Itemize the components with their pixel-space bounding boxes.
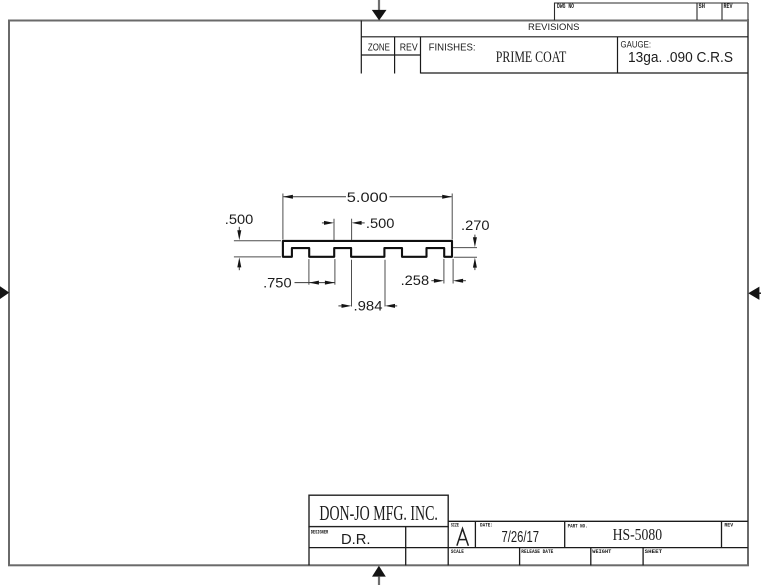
- dimension .500 (left height) extension lines: [234, 241, 281, 257]
- svg-text:DESIGNER: DESIGNER: [311, 529, 329, 535]
- svg-text:7/26/17: 7/26/17: [502, 529, 540, 546]
- svg-text:HS-5080: HS-5080: [613, 525, 663, 544]
- svg-text:REV: REV: [724, 522, 734, 528]
- svg-text:.500: .500: [225, 211, 254, 227]
- dimension .750 extension lines: [309, 259, 335, 285]
- svg-text:SHEET: SHEET: [645, 549, 663, 555]
- svg-text:DATE:: DATE:: [480, 522, 493, 528]
- svg-text:REV: REV: [724, 3, 733, 10]
- svg-text:SCALE: SCALE: [451, 549, 464, 555]
- svg-text:DON-JO MFG. INC.: DON-JO MFG. INC.: [319, 501, 438, 525]
- dimension .258 arrows: [431, 280, 466, 282]
- svg-text:.984: .984: [354, 298, 383, 314]
- revisions header table lines: [361, 21, 748, 74]
- svg-text:.750: .750: [263, 274, 292, 290]
- right zone marker arrow: [748, 287, 761, 300]
- dimension .500 (slot width) extension lines: [334, 219, 352, 240]
- svg-text:13ga. .090 C.R.S: 13ga. .090 C.R.S: [628, 50, 733, 66]
- svg-text:SH: SH: [699, 3, 706, 10]
- dimension .984 extension lines: [352, 260, 386, 307]
- dimension .500 (left) arrows: [238, 227, 240, 270]
- title block lines: [309, 521, 748, 565]
- dimension .500 (slot) arrows: [322, 222, 365, 224]
- top zone marker arrow: [372, 0, 387, 20]
- svg-text:REV: REV: [400, 41, 418, 53]
- dimension .258 extension lines: [444, 259, 453, 284]
- svg-text:.500: .500: [366, 215, 395, 231]
- svg-text:SIZE: SIZE: [451, 522, 459, 528]
- svg-text:PART NO.: PART NO.: [568, 524, 588, 530]
- size letter A: [457, 529, 469, 546]
- dimension .270 extension lines: [453, 248, 477, 258]
- svg-text:PRIME COAT: PRIME COAT: [496, 49, 567, 66]
- bottom zone marker arrow: [372, 566, 386, 585]
- dimension .270 arrows: [474, 235, 476, 271]
- svg-text:5.000: 5.000: [347, 189, 388, 205]
- svg-text:FINISHES:: FINISHES:: [429, 41, 476, 53]
- dimension 5.000 extension lines: [283, 194, 452, 240]
- svg-text:ZONE: ZONE: [368, 41, 390, 53]
- dimension .984 arrows: [338, 305, 397, 307]
- dimension .750 dimension + leader line: [295, 282, 335, 284]
- title block company box: [309, 495, 448, 526]
- dimension 5.000 arrowheads: [283, 195, 293, 199]
- dimension 5.000 dimension line: [283, 196, 451, 198]
- svg-text:D.R.: D.R.: [341, 532, 371, 548]
- svg-text:DWG NO: DWG NO: [557, 3, 574, 10]
- svg-text:.258: .258: [401, 272, 430, 288]
- svg-text:RELEASE DATE: RELEASE DATE: [521, 549, 553, 555]
- part cross-section profile outline: [283, 241, 452, 257]
- svg-text:.270: .270: [461, 217, 490, 233]
- svg-text:WEIGHT: WEIGHT: [592, 549, 611, 555]
- top strip box (DWG NO / SH / REV): [555, 3, 749, 20]
- left zone marker arrow: [0, 286, 9, 299]
- svg-text:REVISIONS: REVISIONS: [528, 22, 580, 33]
